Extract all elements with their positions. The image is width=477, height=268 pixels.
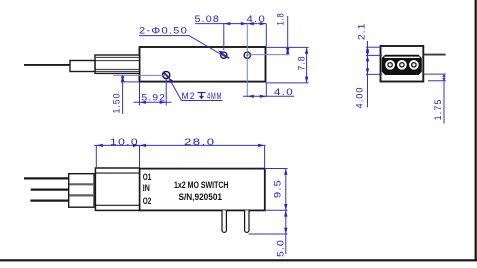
dimension 5.0 (pins, bottom right) [249,210,288,257]
fiber pigtail wire (top view) [24,64,70,66]
svg-text:1.8: 1.8 [276,13,286,26]
svg-text:IN: IN [143,183,150,193]
fiber wire 2 (side view) [31,188,69,190]
fiber boot block (side view) [69,174,94,208]
body (top view) [140,47,266,82]
thread callout M2 depth 4MM with leader [169,78,223,101]
dimension 1.50 (left, under crimp) [112,75,139,114]
svg-text:28.0: 28.0 [184,137,216,147]
dimension 1.75 (end view right) [423,74,446,123]
dimension 9.5 (right of side view) [265,169,288,211]
svg-text:1.75: 1.75 [433,99,443,121]
centerline through S3 (horizontal, to 1.50 dim) [113,74,166,76]
screw hole S1 (slotted) [221,52,230,58]
svg-text:2.1: 2.1 [357,23,367,41]
border line bottom [0,259,477,261]
svg-text:O2: O2 [143,196,152,206]
svg-text:1.50: 1.50 [112,93,122,114]
svg-text:5.08: 5.08 [195,14,221,24]
svg-text:7.8: 7.8 [297,56,307,71]
ferrule F2 (end view) [396,59,407,70]
ferrule tube (top view) [70,61,95,72]
svg-text:2-Φ0.50: 2-Φ0.50 [139,26,188,36]
svg-text:1x2 MO SWITCH: 1x2 MO SWITCH [174,180,229,191]
fiber wire 1 (side view) [24,177,69,179]
svg-text:4MM: 4MM [207,91,222,101]
dimension 1.8 (right of top view) [276,13,290,55]
body (side view) [140,169,265,211]
extension line: body top edge extended right [266,46,308,48]
ferrule F1 (end view) [385,59,396,70]
ferrule F3 (end view) [408,59,419,70]
centerline through S2/S1 (horizontal, to 1.8 dim) [247,54,289,56]
svg-text:5.0: 5.0 [276,239,286,257]
dimension 4.00 (end view left bottom) [355,68,383,108]
fiber wire 3 (side view) [30,199,68,201]
dimension 7.8 (right of top view) [297,47,309,83]
screw hole S2 (crosshair) [244,52,250,58]
pin P2 (side view) [245,210,249,232]
border line right [475,0,477,261]
svg-text:5.92: 5.92 [142,93,167,103]
hole callout 2-Φ0.50 with leader [139,26,226,58]
crimp sleeve (side view) [95,168,139,210]
dimension 5.08 / 4.0 (top dim line) [195,22,266,50]
housing end face [381,46,424,82]
dimension 5.92 [134,79,172,106]
dimension 10.0 / 28.0 (top of side view) [94,144,266,169]
centerline through S2 (vertical) [246,24,248,97]
svg-text:S/N,920501: S/N,920501 [179,192,223,203]
dimension 4.0 (bottom right of top view) [243,83,294,98]
svg-text:10.0: 10.0 [110,137,139,147]
svg-text:9.5: 9.5 [273,179,283,198]
crimp boot (top view) [95,55,140,73]
slot inner top highlight [385,56,420,58]
svg-text:4.0: 4.0 [274,87,294,97]
screw hole S3 (slotted, bottom edge) [163,71,170,78]
svg-text:4.0: 4.0 [247,14,267,24]
dimension 2.1 (end view left top) [357,23,383,108]
electrical pin (end view) [423,54,445,56]
extension line: body bottom edge extended right [266,82,308,84]
svg-text:4.00: 4.00 [355,87,365,109]
ferrule slot (filled) [382,55,421,74]
pin P1 (side view) [222,210,226,232]
svg-text:M2: M2 [182,91,196,101]
svg-text:O1: O1 [143,172,152,182]
